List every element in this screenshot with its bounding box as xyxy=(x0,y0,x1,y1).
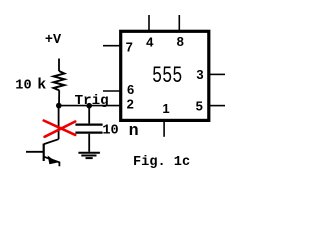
pin 4 stub wire xyxy=(148,15,150,30)
pin 1 stub wire xyxy=(163,121,165,137)
svg-text:Fig. 1c: Fig. 1c xyxy=(133,155,190,170)
wire node A to transistor Q1 collector xyxy=(58,106,60,140)
IC U1 555 timer body xyxy=(121,31,209,120)
red X cross-out stroke 1 xyxy=(44,121,75,135)
node B junction dot xyxy=(86,103,92,109)
svg-text:555: 555 xyxy=(152,63,182,89)
pin 3 stub wire xyxy=(210,73,226,75)
svg-text:6: 6 xyxy=(127,82,134,97)
svg-text:7: 7 xyxy=(126,39,133,54)
ground symbol xyxy=(78,153,100,158)
svg-text:10: 10 xyxy=(15,79,31,94)
wire capacitor C1 to ground xyxy=(88,134,90,152)
svg-text:k: k xyxy=(37,77,46,94)
pin 6 stub wire xyxy=(103,90,120,92)
svg-text:2: 2 xyxy=(127,96,134,111)
resistor R1 zigzag xyxy=(54,71,65,90)
wire +V to resistor R1 xyxy=(58,59,60,72)
transistor Q1 emitter arrowhead xyxy=(48,156,58,165)
wire resistor R1 to node A xyxy=(58,90,60,105)
svg-text:1: 1 xyxy=(162,101,169,116)
capacitor C1 top plate xyxy=(75,123,102,125)
svg-text:4: 4 xyxy=(146,35,154,50)
transistor Q1 base lead wire xyxy=(26,151,44,153)
pin 8 stub wire xyxy=(178,15,180,30)
svg-text:3: 3 xyxy=(196,67,203,82)
svg-text:+V: +V xyxy=(45,33,62,48)
svg-text:5: 5 xyxy=(196,98,203,113)
transistor Q1 emitter lead xyxy=(44,157,59,167)
svg-text:n: n xyxy=(129,121,139,140)
pin 5 stub wire xyxy=(210,105,226,107)
transistor Q1 collector lead xyxy=(44,139,58,144)
node A junction dot xyxy=(56,103,62,109)
pin 7 stub wire xyxy=(103,45,120,47)
wire node B to capacitor C1 xyxy=(88,106,90,124)
red X cross-out stroke 2 xyxy=(45,122,76,137)
svg-text:10: 10 xyxy=(102,123,118,138)
capacitor C1 bottom plate xyxy=(75,131,102,133)
svg-text:8: 8 xyxy=(177,34,184,49)
transistor Q1 base bar xyxy=(43,144,45,162)
wire node A to pin 2 (Trig net) xyxy=(59,105,120,107)
